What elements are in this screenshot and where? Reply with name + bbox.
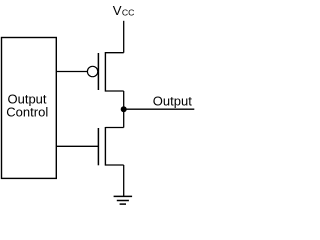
Q1 source lead bbox=[105, 90, 123, 92]
transistor Q1 PMOS bbox=[87, 52, 123, 92]
svg-text:CC: CC bbox=[122, 7, 135, 17]
Q1 gate bar bbox=[97, 53, 99, 90]
ground bbox=[114, 196, 133, 204]
Q2 gate bar bbox=[97, 128, 99, 165]
svg-text:Output: Output bbox=[153, 94, 192, 109]
wire Vcc to PMOS drain bbox=[123, 21, 125, 53]
Q2 drain lead bbox=[105, 127, 123, 129]
Q1 drain lead bbox=[105, 52, 123, 54]
output control block bbox=[2, 38, 57, 179]
node output junction dot bbox=[121, 106, 127, 112]
wire box to PMOS gate bbox=[56, 71, 87, 73]
Q1 gate bubble bbox=[87, 66, 97, 76]
power Vcc label bbox=[113, 3, 135, 18]
Q2 source lead bbox=[105, 164, 123, 166]
wire NMOS source to ground bbox=[123, 165, 125, 196]
wire PMOS source to output node bbox=[123, 91, 125, 109]
transistor Q2 NMOS bbox=[98, 127, 123, 166]
svg-text:Control: Control bbox=[6, 105, 48, 120]
wire box to NMOS gate bbox=[56, 145, 98, 147]
svg-text:V: V bbox=[113, 3, 122, 18]
wire output node to NMOS drain bbox=[123, 109, 125, 127]
Q2 channel bar bbox=[104, 127, 106, 166]
Q1 channel bar bbox=[104, 52, 106, 92]
wire output bbox=[124, 108, 195, 110]
